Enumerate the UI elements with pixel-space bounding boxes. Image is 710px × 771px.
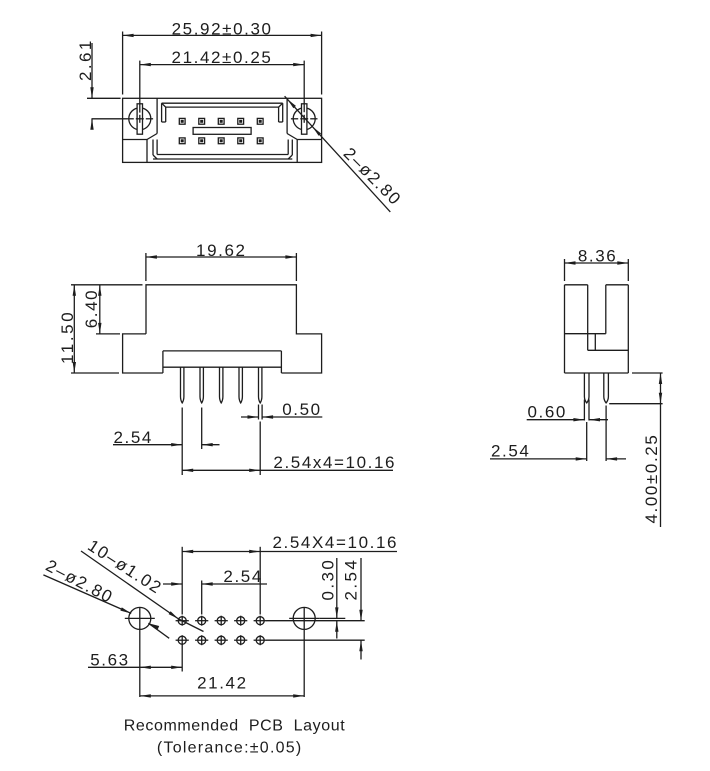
svg-text:2.54: 2.54 xyxy=(114,428,154,447)
svg-text:2.61: 2.61 xyxy=(76,38,95,81)
svg-text:6.40: 6.40 xyxy=(82,289,101,329)
svg-text:25.92±0.30: 25.92±0.30 xyxy=(172,20,273,39)
svg-text:21.42±0.25: 21.42±0.25 xyxy=(172,48,273,67)
svg-text:2.54X4=10.16: 2.54X4=10.16 xyxy=(273,533,399,552)
svg-text:2.54: 2.54 xyxy=(342,558,361,601)
svg-text:8.36: 8.36 xyxy=(578,246,618,265)
svg-text:21.42: 21.42 xyxy=(197,674,248,693)
svg-text:11.50: 11.50 xyxy=(58,310,77,364)
svg-text:4.00±0.25: 4.00±0.25 xyxy=(642,434,661,524)
svg-text:Recommended PCB Layout: Recommended PCB Layout xyxy=(124,718,346,735)
svg-text:2–ø2.80: 2–ø2.80 xyxy=(340,144,405,209)
svg-text:19.62: 19.62 xyxy=(196,241,247,260)
svg-text:(Tolerance:±0.05): (Tolerance:±0.05) xyxy=(157,740,303,757)
svg-text:0.60: 0.60 xyxy=(528,403,568,422)
svg-text:5.63: 5.63 xyxy=(90,651,130,670)
svg-text:2.54: 2.54 xyxy=(491,442,531,461)
svg-text:0.30: 0.30 xyxy=(319,558,338,601)
svg-text:2.54: 2.54 xyxy=(223,567,263,586)
svg-text:2.54x4=10.16: 2.54x4=10.16 xyxy=(273,453,396,472)
svg-text:0.50: 0.50 xyxy=(282,400,322,419)
